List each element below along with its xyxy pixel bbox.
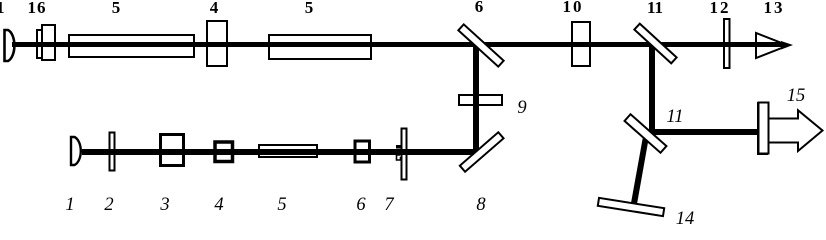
mark on element 7 xyxy=(396,145,401,149)
svg-text:10: 10 xyxy=(563,0,584,16)
wire: beam arrowhead at 13 xyxy=(781,41,793,50)
element 2 plate xyxy=(110,133,115,171)
svg-text:14: 14 xyxy=(676,209,695,225)
output arrow 15 xyxy=(767,110,823,151)
element 16 thin plate xyxy=(37,30,43,58)
svg-text:5: 5 xyxy=(112,0,121,17)
svg-text:2: 2 xyxy=(104,195,113,215)
element 4 (bottom) xyxy=(215,142,233,162)
svg-text:16: 16 xyxy=(28,0,47,17)
element 16 wide block xyxy=(42,25,55,60)
svg-text:4: 4 xyxy=(214,195,223,215)
wire: vertical beam 11 to 11b xyxy=(649,45,655,133)
svg-text:3: 3 xyxy=(159,195,169,215)
wire: horizontal beam 11b to 15 xyxy=(650,129,758,135)
svg-text:9: 9 xyxy=(517,98,526,118)
wire: vertical beam 6 to 8 xyxy=(473,44,479,152)
rod 5 (top-left) xyxy=(69,35,194,57)
svg-text:13: 13 xyxy=(764,0,785,17)
prism 13 xyxy=(756,33,788,58)
element 12 plate xyxy=(724,19,730,68)
svg-text:11: 11 xyxy=(666,107,683,127)
plate of output 15 xyxy=(758,103,767,154)
svg-text:1: 1 xyxy=(65,195,74,215)
element 6 (bottom) xyxy=(355,141,370,162)
element 7 plate xyxy=(402,129,407,180)
beam splitter 11 (top) xyxy=(634,24,676,64)
beam splitter 11 (lower) xyxy=(625,114,667,153)
beam splitter 6 xyxy=(458,24,503,66)
element 4 (top) xyxy=(207,21,227,66)
mirror 1 (bottom) xyxy=(71,137,81,165)
svg-text:6: 6 xyxy=(475,0,484,16)
svg-text:15: 15 xyxy=(787,86,806,106)
mirror 1 (top) xyxy=(5,30,15,61)
wire: bottom beam xyxy=(82,149,478,155)
svg-text:5: 5 xyxy=(277,195,286,215)
element 9 plate xyxy=(459,95,502,105)
wire: diagonal beam 11b to 14 xyxy=(631,131,650,204)
element 10 xyxy=(572,22,590,66)
plate of output 15 redraw xyxy=(759,103,769,154)
svg-text:11: 11 xyxy=(647,0,663,17)
svg-text:5: 5 xyxy=(305,0,314,17)
svg-text:6: 6 xyxy=(356,195,366,215)
svg-text:4: 4 xyxy=(210,0,219,17)
rod 5 (bottom) xyxy=(259,145,317,157)
svg-text:7: 7 xyxy=(384,195,394,215)
svg-text:1: 1 xyxy=(0,0,5,17)
svg-text:8: 8 xyxy=(476,195,486,215)
element 3 xyxy=(161,135,184,166)
wire: main top beam xyxy=(12,42,784,47)
rod 5 (top-right) xyxy=(269,35,371,59)
svg-text:12: 12 xyxy=(710,0,731,17)
mirror 14 xyxy=(598,198,664,216)
mirror 8 xyxy=(460,132,504,171)
